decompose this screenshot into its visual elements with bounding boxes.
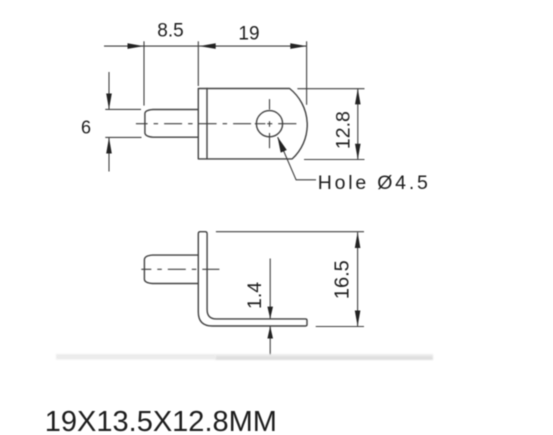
extension line 6 top [105,108,141,110]
svg-text:8.5: 8.5 [157,21,183,42]
svg-text:12.8: 12.8 [332,111,354,149]
arrowhead 19 right (points right) [290,43,306,49]
hole crosshair vertical [269,99,271,109]
hole circle [256,111,282,137]
arrowhead 6 top (points down) [106,94,112,110]
svg-text:6: 6 [81,118,91,138]
L bracket outline (side view) [198,232,307,326]
dimension line 12.8 [357,89,359,159]
arrowhead 1.4 bottom (points up) [267,326,273,338]
centerline (top view) [136,123,252,125]
dimension line 6 lower [108,138,110,172]
centerline (side view) [141,268,219,270]
arrowhead 12.8 bottom (points down) [355,144,361,160]
extension line 12.8 top [297,88,364,90]
arrowhead 16.5 bottom (points down) [355,311,361,327]
svg-text:Hole Ø4.5: Hole Ø4.5 [318,172,431,194]
extension line 8.5/19 shared [197,41,199,86]
arrowhead 8.5 left (points right) [128,43,144,49]
dimension line 1.4 upper [269,259,271,319]
svg-text:16.5: 16.5 [332,260,354,299]
arrowhead 1.4 top (points down) [267,307,273,319]
extension line 6 bottom [105,136,141,138]
arrowhead 12.8 top (points up) [355,89,361,105]
extension line 19 right [306,41,308,105]
dimension line 16.5 [357,232,359,326]
terminal tab (top view) [145,110,198,138]
svg-text:19: 19 [238,24,259,45]
arrowhead 6 bottom (points up) [106,138,112,154]
hole crosshair horizontal [255,123,266,125]
arrowhead 19 left (points left) [199,43,215,49]
bend line (inner left edge, top view) [206,89,208,159]
svg-text:19X13.5X12.8MM: 19X13.5X12.8MM [45,406,277,435]
part body outline (top view) [198,89,307,159]
arrowhead leader (points up-left) [278,137,287,153]
dimension line 8.5/19 [104,45,307,47]
svg-text:1.4: 1.4 [244,282,266,309]
arrowhead 16.5 top (points up) [355,232,361,248]
separator band right [216,354,434,360]
dimension line 1.4 lower [269,326,271,355]
leader line Hole [278,137,316,180]
extension line 16.5 top [216,231,364,233]
extension line 16.5 bottom [316,326,364,328]
extension line 8.5 left [143,41,145,105]
dimension line 6 upper [108,72,110,109]
terminal tab (side view) [144,255,198,283]
separator band left [56,354,216,360]
extension line 12.8 bottom [304,159,365,161]
